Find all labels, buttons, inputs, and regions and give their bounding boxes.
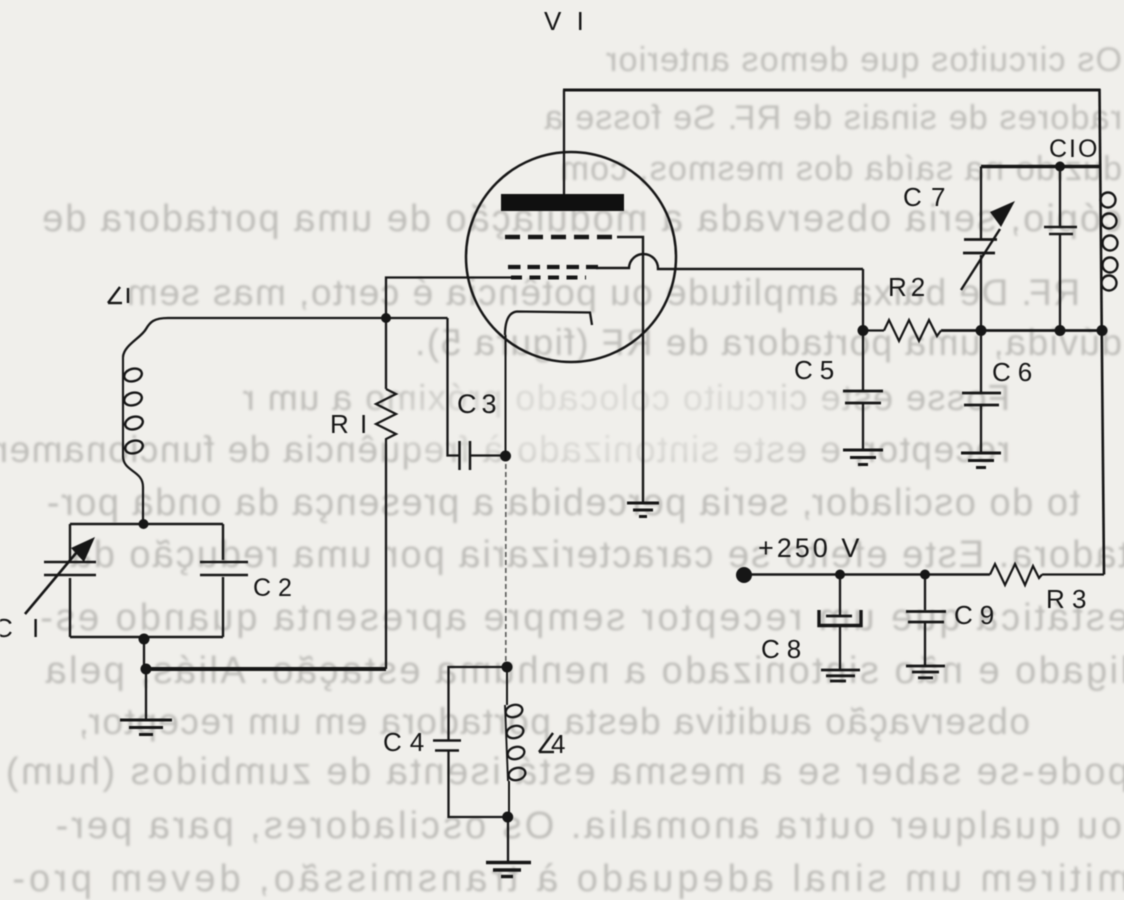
plate lead wire [563, 90, 565, 194]
svg-text:4: 4 [551, 729, 565, 759]
capacitor C6 [980, 331, 982, 393]
wire L4 to ground [507, 817, 509, 861]
svg-text:C I: C I [0, 613, 45, 643]
wire R2 to right vertical [941, 329, 1103, 332]
capacitor C5 [862, 331, 864, 391]
svg-text:V I: V I [544, 6, 588, 36]
ground below C1/C2 [145, 669, 147, 719]
node: top of C1/C2 box [139, 519, 149, 529]
ground below C9 [906, 666, 945, 678]
lighter bleed zone of the scan [260, 345, 940, 495]
wire G2 lead down to R2 [862, 269, 864, 331]
node: top of L4 [502, 662, 513, 673]
variable capacitor C1 [25, 546, 96, 614]
svg-text:CIO: CIO [1049, 135, 1099, 163]
svg-text:R 3: R 3 [1046, 584, 1086, 614]
ground below C8 [821, 670, 860, 681]
node: C10 top [1055, 162, 1065, 172]
svg-text:C9: C9 [954, 600, 1001, 630]
node: C3/cathode junction [500, 451, 511, 462]
node: bottom of L4 [502, 812, 513, 823]
svg-text:C2: C2 [253, 574, 299, 602]
top supply wire [563, 89, 1101, 92]
coil on right vertical (tank inductor) [1101, 193, 1118, 291]
cathode lead (faint) down to L4 [505, 335, 507, 456]
grid G3 (top dashed grid) of V1 [505, 235, 620, 239]
G2 lead with hop over wire [596, 254, 863, 269]
ground below L4 [486, 863, 531, 877]
node: C8 junction [835, 570, 845, 580]
inductor L4 [507, 667, 509, 817]
supply terminal dot [736, 567, 752, 583]
wire box bottom to ground junction [143, 637, 145, 669]
node: C9 junction [920, 570, 930, 580]
tube V1 envelope [466, 152, 676, 362]
inductor L1 [123, 456, 143, 524]
label L4 [539, 733, 554, 752]
svg-text:C8: C8 [761, 634, 808, 664]
B+ supply wire [743, 573, 990, 576]
electrolytic capacitor C8 [839, 575, 841, 616]
node: C10 bottom [1055, 325, 1066, 336]
svg-text:C6: C6 [992, 357, 1039, 387]
resistor R1 [385, 318, 387, 389]
ground below tube [627, 503, 659, 517]
top wire of C7/C10 section [981, 165, 1102, 168]
node: C7 branch bottom [976, 325, 987, 336]
ground below C6 [961, 453, 1001, 468]
grid G1 (bottom dashed grid) of V1 [511, 276, 586, 280]
right vertical wire [1100, 89, 1105, 575]
grid G2 (middle dashed grid) of V1 [508, 265, 598, 269]
svg-text:C 7: C 7 [903, 182, 946, 212]
node: bottom of box [139, 634, 150, 645]
node: ground junction [141, 664, 152, 675]
variable capacitor C7 branch [980, 167, 982, 331]
wire G2 line to R2 (horizontal) [863, 329, 884, 331]
node: right vertical at tank bottom [1097, 325, 1108, 336]
resistor R3 [990, 564, 1042, 585]
svg-text:C5: C5 [794, 355, 841, 385]
wire to C4 [449, 667, 508, 740]
capacitor C9 [924, 575, 926, 611]
C7 arrow [961, 229, 1000, 290]
plate (anode) of V1 [501, 194, 624, 211]
G1 lead wire to the left [386, 278, 513, 319]
svg-text:R2: R2 [888, 272, 929, 302]
C1/C2 tank box wires [70, 524, 223, 637]
capacitor C10 [1059, 167, 1061, 331]
svg-text:R I: R I [330, 409, 369, 439]
wire from L1 to grid junction and on to C3 [123, 318, 448, 357]
svg-text:C3: C3 [457, 389, 502, 419]
long bottom wire to R1 [146, 667, 386, 671]
G3 lead to ground [617, 237, 643, 502]
node: grid junction [381, 313, 391, 323]
node: R2 left [858, 325, 869, 336]
capacitor C4 [433, 741, 461, 751]
ground below C5 [843, 450, 883, 465]
svg-text:C4: C4 [383, 727, 432, 757]
resistor R2 [884, 320, 941, 341]
capacitor C3 [448, 318, 460, 456]
capacitor C2 [200, 562, 248, 575]
cathode of V1 [505, 312, 592, 336]
wire R3 to right vertical corner [1042, 573, 1104, 575]
label L1 [108, 287, 128, 303]
svg-text:+250 V: +250 V [758, 533, 862, 563]
